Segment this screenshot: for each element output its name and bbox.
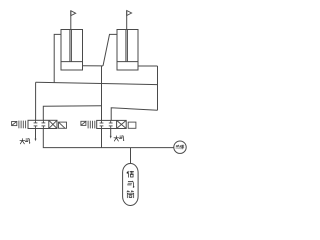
wire right riser (157, 66, 159, 110)
cylinder C1 flag (71, 11, 76, 16)
wire C1 bottom to valve V2 port A riser (101, 66, 103, 121)
wire C1 top port to manifold (54, 34, 61, 82)
cylinder C1 flag pole (70, 11, 72, 30)
wire valve V1 port B across (43, 106, 101, 121)
valve V1 blocked ports (T marks) (34, 120, 46, 128)
wire valve V2 port P down to main line (101, 129, 103, 148)
wire C1 bottom port (83, 65, 104, 67)
valve V2 exhaust arrow (110, 136, 112, 139)
valve V2 body (97, 120, 127, 128)
valve V2 exhaust stem (110, 129, 112, 137)
tank label 储 (127, 171, 134, 177)
cylinder C1 piston (61, 61, 83, 63)
cylinder C2 rod (125, 30, 127, 62)
cylinder C2 piston (117, 61, 138, 63)
label 大气 V2 (114, 136, 124, 142)
valve V2 spring (88, 121, 95, 129)
valve V1 spring (19, 121, 26, 129)
wire manifold line (36, 82, 158, 84)
tank 储气筒 body (123, 164, 139, 206)
valve V1 exhaust arrow (35, 139, 37, 142)
air source circle (174, 141, 186, 153)
valve V2 blocked ports (T marks) (100, 120, 113, 128)
cylinder C2 flag pole (126, 11, 128, 30)
wire valve V1 port P to main line (43, 129, 174, 148)
valve V1 body (28, 120, 57, 128)
tank label 气 (128, 181, 135, 187)
valve V2 solenoid left (81, 121, 87, 125)
cylinder C2 body (117, 30, 138, 71)
wire manifold to valve V1 port A (35, 82, 37, 120)
valve V1 solenoid left (12, 121, 17, 125)
label 大气 V1 (20, 138, 30, 144)
cylinder C1 body (61, 30, 83, 71)
tank label 筒 (127, 191, 134, 198)
wire C2 bottom port (138, 65, 158, 67)
wire riser to valve V2 port B (111, 108, 157, 121)
valve V2 pilot right box (128, 122, 136, 128)
cylinder C1 rod (69, 30, 71, 62)
valve V1 cross position X (49, 120, 57, 128)
air source label 气源 (176, 145, 184, 149)
cylinder C2 flag (127, 11, 132, 16)
wire tank riser (130, 148, 132, 164)
valve V1 exhaust stem (35, 129, 37, 140)
valve V2 cross position X (117, 120, 127, 128)
wire diagonal to C2 top port (103, 34, 117, 66)
valve V1 solenoid right (59, 122, 67, 128)
